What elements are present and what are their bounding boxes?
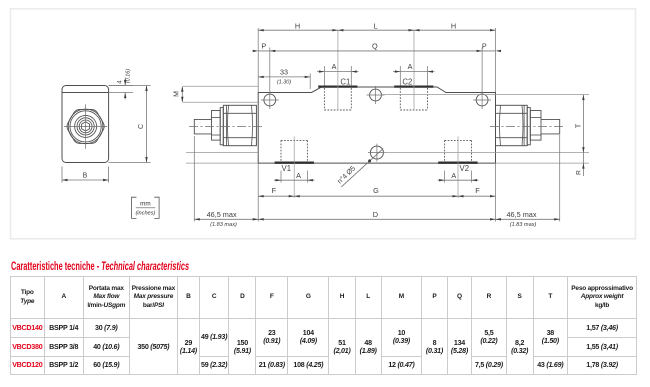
svg-text:A: A	[296, 171, 301, 180]
right fitting centerline	[490, 125, 566, 127]
dim F G F	[258, 195, 495, 197]
svg-text:H: H	[451, 21, 456, 30]
svg-text:P: P	[261, 41, 266, 50]
svg-text:(inches): (inches)	[135, 210, 155, 216]
port V2 opening	[438, 161, 477, 163]
right fitting washer	[527, 108, 530, 145]
svg-text:mm: mm	[140, 200, 151, 207]
dim A over C2	[399, 66, 401, 86]
svg-text:R: R	[575, 170, 582, 175]
port C1 opening	[318, 85, 357, 87]
svg-text:(1.83 max): (1.83 max)	[510, 222, 537, 228]
mounting hole top-right	[476, 94, 488, 106]
svg-text:T: T	[575, 123, 582, 128]
right fitting hex nut	[496, 105, 528, 145]
body bottom extension lines	[186, 152, 258, 154]
hex nut end view	[67, 109, 104, 143]
reference line through bottom hole	[384, 152, 590, 154]
svg-text:F: F	[475, 186, 480, 195]
mounting hole bottom-middle	[370, 146, 383, 159]
extension lines top	[257, 28, 259, 93]
dim 46.5max D 46.5max	[194, 218, 559, 220]
svg-text:C1: C1	[340, 77, 350, 86]
valve body end view	[62, 86, 109, 163]
svg-text:A: A	[451, 171, 456, 180]
left fitting centerline	[189, 125, 262, 127]
svg-text:P: P	[482, 41, 487, 50]
svg-text:D: D	[373, 210, 378, 219]
svg-text:(1.83 max): (1.83 max)	[210, 222, 237, 228]
svg-text:46,5 max: 46,5 max	[207, 210, 237, 219]
svg-text:A: A	[332, 62, 337, 71]
border frame	[11, 9, 636, 239]
left fitting stud	[194, 119, 211, 133]
dim A under V2	[444, 171, 446, 183]
extension lines bottom	[257, 164, 259, 222]
dim C	[109, 85, 151, 87]
dim M	[183, 85, 258, 87]
left fitting small hex	[212, 111, 221, 141]
port centerlines	[337, 30, 339, 110]
svg-text:(1.30): (1.30)	[277, 80, 292, 86]
leader n4 o5	[341, 149, 383, 187]
svg-text:M: M	[174, 91, 181, 97]
dim A under V1	[280, 171, 282, 183]
port V1 thread (dashed)	[280, 140, 282, 161]
left fitting washer	[220, 108, 223, 145]
svg-text:G: G	[373, 186, 379, 195]
port C2 thread (dashed)	[399, 88, 401, 110]
svg-text:L: L	[374, 21, 378, 30]
valve body main view outline	[258, 87, 495, 163]
mounting hole top-middle	[370, 89, 382, 101]
svg-text:C: C	[138, 124, 145, 129]
svg-text:F: F	[272, 186, 277, 195]
mounting hole top-left	[264, 94, 276, 106]
svg-text:A: A	[408, 62, 413, 71]
left fitting hex nut	[223, 105, 256, 145]
svg-text:C2: C2	[402, 77, 412, 86]
dim B	[61, 167, 63, 183]
svg-text:H: H	[295, 21, 300, 30]
right fitting small hex	[530, 111, 541, 141]
end view crosshair	[64, 125, 107, 127]
port V2 thread (dashed)	[444, 140, 446, 161]
svg-text:46,5 max: 46,5 max	[506, 210, 536, 219]
right fitting stud	[541, 119, 560, 133]
dim T and R	[382, 94, 590, 96]
port C2 opening	[394, 85, 433, 87]
svg-text:33: 33	[280, 68, 288, 77]
svg-text:V1: V1	[282, 164, 292, 173]
dim H L H	[258, 29, 495, 31]
mm/inches legend	[132, 197, 137, 218]
dim 4 (0.16)	[109, 85, 133, 87]
svg-text:(0.16): (0.16)	[126, 69, 132, 84]
port C1 thread (dashed)	[323, 88, 325, 110]
dim A over C1	[323, 66, 325, 86]
svg-text:V2: V2	[460, 164, 470, 173]
svg-text:B: B	[83, 173, 88, 180]
dim P Q P	[258, 50, 495, 52]
svg-text:Q: Q	[372, 41, 378, 50]
svg-text:4: 4	[117, 80, 124, 84]
dim 33 (1.30)	[258, 76, 310, 78]
port V1 opening	[275, 161, 314, 163]
